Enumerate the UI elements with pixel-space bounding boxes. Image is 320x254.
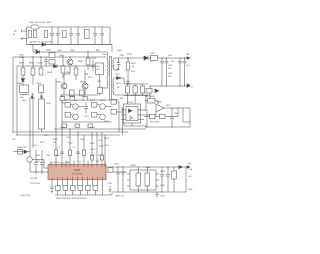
resistor R656 — [160, 114, 166, 119]
svg-text:D656: D656 — [157, 102, 162, 104]
svg-text:C611: C611 — [91, 58, 97, 60]
wire channel G — [101, 132, 103, 165]
junction dots row — [127, 57, 136, 96]
svg-text:R521: R521 — [56, 155, 61, 157]
svg-text:C542: C542 — [80, 139, 85, 141]
svg-text:R531: R531 — [90, 143, 95, 145]
wire secondary2 bottom — [114, 86, 150, 99]
wire secondary lead — [114, 57, 146, 59]
wire channel A — [29, 99, 31, 152]
wire left rail B — [16, 66, 18, 135]
diode D601 — [36, 50, 40, 53]
resistor R516 — [86, 186, 91, 191]
svg-text:RY601: RY601 — [29, 98, 35, 100]
resistor R603 — [63, 31, 66, 38]
capacitor C608 — [100, 27, 104, 45]
resistor R627b — [70, 97, 75, 100]
resistor R638 — [97, 88, 102, 94]
svg-text:1.5A: 1.5A — [188, 168, 193, 171]
IC extra top pin stubs — [51, 161, 105, 165]
svg-text:Q602: Q602 — [56, 82, 62, 84]
svg-text:C684: C684 — [160, 185, 166, 187]
pc internal marks — [129, 109, 133, 113]
capacitor C543 — [60, 152, 64, 154]
svg-text:Q601: Q601 — [59, 55, 65, 57]
svg-text:L60: L60 — [20, 97, 23, 99]
AC lead L — [22, 30, 27, 32]
svg-text:C651: C651 — [168, 65, 173, 67]
wire left edge — [26, 27, 28, 45]
svg-text:R531: R531 — [98, 155, 103, 157]
resistor R654 — [148, 99, 156, 104]
fuse F601 — [31, 25, 39, 29]
resistor R629a — [62, 124, 67, 127]
svg-text:R542: R542 — [68, 143, 73, 145]
ground sym2 — [155, 192, 159, 198]
wires drive — [70, 102, 122, 135]
capacitor C607 — [93, 27, 97, 45]
capacitor C544 — [76, 152, 80, 154]
capacitor C611 — [91, 60, 95, 71]
relay RY601 — [20, 85, 29, 93]
wire channel C — [55, 78, 57, 165]
resistor R604 — [22, 57, 24, 68]
resistor R681 — [173, 167, 175, 192]
svg-text:G: G — [191, 87, 193, 89]
wire channel H — [104, 135, 106, 165]
capacitor C606 — [76, 27, 80, 45]
svg-text:C68: C68 — [108, 183, 113, 185]
wire top rail — [27, 26, 111, 28]
resistor R626 — [111, 110, 116, 115]
pc pins left — [121, 110, 126, 120]
diode D652 — [155, 89, 159, 93]
svg-text:470: 470 — [171, 61, 174, 63]
wire out — [164, 107, 190, 109]
resistor R624 — [92, 113, 97, 118]
svg-text:R631: R631 — [131, 63, 136, 65]
transistor Q613 — [100, 104, 106, 110]
resistor R601a — [28, 31, 31, 38]
svg-text:T601: T601 — [102, 54, 108, 56]
wire right edge — [110, 27, 112, 52]
resistor R515 — [78, 186, 83, 191]
resistor R606 — [40, 57, 42, 68]
resistor R608 — [75, 65, 77, 80]
resistor R620 tall — [39, 99, 45, 129]
svg-text:C531: C531 — [98, 140, 103, 142]
svg-text:L651: L651 — [150, 53, 156, 55]
svg-text:Q603: Q603 — [80, 82, 86, 84]
svg-text:D65: D65 — [120, 55, 125, 57]
svg-text:C533: C533 — [90, 149, 95, 151]
junction dots rm — [145, 107, 178, 127]
IC501 hybrid regulator — [48, 165, 106, 180]
resistor R610 — [70, 90, 75, 96]
svg-text:R541: R541 — [53, 139, 58, 141]
photocoupler PC601 outer — [124, 104, 141, 123]
svg-text:R655 R656: R655 R656 — [150, 122, 160, 124]
svg-text:C515 R515: C515 R515 — [30, 183, 41, 185]
svg-text:4.7: 4.7 — [57, 147, 60, 149]
svg-text:D604: D604 — [34, 50, 39, 52]
svg-text:R605: R605 — [78, 61, 84, 63]
capacitor C621 — [84, 102, 88, 113]
svg-text:C609: C609 — [19, 57, 25, 59]
wire primary bottom — [100, 75, 107, 96]
svg-text:1.2: 1.2 — [150, 61, 153, 63]
resistor R621 — [65, 103, 70, 108]
svg-text:C681: C681 — [114, 164, 120, 166]
resistor R633 — [126, 86, 130, 93]
resistor R637 — [49, 60, 55, 65]
arrow gnd rail — [187, 84, 190, 86]
svg-text:0.01: 0.01 — [78, 162, 82, 164]
svg-text:C541: C541 — [66, 137, 71, 139]
resistor R631 — [127, 58, 129, 84]
svg-text:C612: C612 — [115, 74, 120, 76]
wire channel E — [91, 132, 93, 165]
svg-text:AC: AC — [14, 30, 17, 33]
output arrow top — [187, 166, 190, 168]
wire feed — [62, 95, 65, 103]
resistor R543 — [82, 150, 85, 156]
wire left rail A — [12, 57, 14, 132]
svg-text:C65: C65 — [168, 55, 173, 57]
svg-text:T60: T60 — [116, 69, 120, 71]
svg-text:D605: D605 — [57, 50, 62, 52]
svg-text:R601: R601 — [19, 63, 25, 65]
svg-text:R61: R61 — [88, 77, 93, 79]
wire secondary2 leads — [114, 69, 119, 71]
ground C623 — [41, 172, 44, 174]
capacitor C653 — [178, 58, 182, 86]
svg-text:470: 470 — [168, 68, 171, 70]
svg-text:R533: R533 — [104, 138, 109, 140]
diode D621 — [24, 150, 28, 154]
svg-text:C535: C535 — [104, 145, 109, 147]
junction dots ch — [55, 128, 78, 135]
capacitor C604 — [56, 27, 60, 45]
svg-text:10k: 10k — [53, 142, 56, 144]
IC pin ticks inside — [51, 165, 105, 180]
wire main bus — [13, 56, 106, 58]
diode D603 — [54, 64, 58, 67]
svg-text:+9V: +9V — [187, 164, 191, 166]
svg-text:IN: IN — [13, 34, 16, 36]
capacitor C603 — [50, 27, 54, 45]
capacitor C622 — [34, 150, 38, 172]
capacitor C651 — [160, 58, 164, 86]
wire channel B — [32, 93, 34, 148]
svg-text:D602: D602 — [17, 83, 23, 85]
vertical x147 — [146, 110, 148, 127]
svg-text:C610: C610 — [70, 50, 75, 52]
resistor R625 — [111, 100, 116, 105]
wire hbus1 — [13, 131, 128, 133]
svg-text:R628 D621: R628 D621 — [17, 147, 28, 149]
transformer secondary 1 — [112, 58, 115, 70]
output arrow — [187, 57, 190, 60]
capacitor C654 — [183, 58, 187, 86]
wire — [32, 75, 34, 85]
transformer core — [110, 56, 112, 100]
svg-text:S2: S2 — [117, 87, 120, 89]
resistor R513 — [63, 186, 68, 191]
svg-text:D608: D608 — [117, 50, 123, 52]
resistor R628 — [18, 150, 23, 155]
svg-text:C516 R518: C516 R518 — [20, 195, 31, 197]
ground sym — [108, 186, 112, 193]
transistor Q611 — [73, 104, 79, 110]
wire channel F — [96, 132, 98, 165]
svg-text:R519: R519 — [40, 142, 45, 144]
svg-text:C51 R51: C51 R51 — [30, 178, 37, 180]
svg-text:C616: C616 — [46, 103, 52, 105]
inductor L651 — [151, 56, 158, 61]
wire secondary gnd rail — [150, 85, 187, 87]
diode D602 — [21, 79, 25, 82]
svg-text:L603: L603 — [22, 100, 27, 102]
svg-text:STR-S6709: STR-S6709 — [72, 174, 83, 176]
ic681 internal marks — [138, 167, 147, 192]
resistor R517 — [93, 186, 98, 191]
wire mid rail — [144, 116, 178, 118]
capacitor C684 — [166, 167, 170, 192]
resistor R607 — [62, 57, 64, 78]
capacitor C655 — [170, 108, 174, 127]
wire row drops — [128, 84, 146, 110]
ic681 internal element B — [145, 173, 150, 186]
diode D651 — [144, 56, 148, 60]
svg-text:R52: R52 — [44, 135, 47, 137]
svg-text:+B: +B — [186, 53, 189, 56]
inductor L602 — [85, 30, 90, 39]
wire box leads — [145, 101, 158, 104]
wire right edge — [185, 167, 187, 192]
transistor Q615 — [27, 157, 33, 163]
wire channel E3 — [83, 135, 85, 165]
transformer primary winding — [106, 52, 108, 60]
capacitor C682 — [121, 167, 125, 192]
svg-text:C683: C683 — [160, 171, 166, 173]
svg-text:C61: C61 — [97, 81, 102, 83]
capacitor C610 — [44, 57, 48, 66]
capacitor C632 — [126, 80, 130, 83]
wire drive bottom rail — [62, 121, 112, 123]
svg-text:C60 R60 C60 L60 C60 R60: C60 R60 C60 L60 C60 R60 — [29, 42, 52, 44]
svg-text:C684: C684 — [160, 196, 166, 198]
resistor R655 — [150, 114, 156, 119]
svg-text:C511: C511 — [46, 155, 50, 157]
svg-text:L681: L681 — [146, 167, 151, 169]
chassis gnd x — [40, 96, 43, 99]
wire bus2 — [17, 65, 96, 67]
resistor R627c — [83, 97, 88, 100]
resistor R512 — [56, 186, 61, 191]
svg-text:R512 R513 R514 R515 R516 R517: R512 R513 R514 R515 R516 R517 — [56, 198, 88, 200]
wire right edge down — [189, 108, 191, 127]
transistor Q602 — [61, 83, 67, 89]
resistor R623 — [92, 103, 97, 108]
resistor R635 — [141, 86, 145, 93]
resistor R541 — [54, 150, 57, 156]
wire rectified rail — [33, 45, 106, 53]
svg-text:D651: D651 — [127, 54, 133, 56]
svg-text:C610: C610 — [37, 63, 43, 65]
svg-text:220: 220 — [168, 76, 171, 78]
svg-text:Z601: Z601 — [36, 83, 42, 85]
capacitor C512 — [50, 187, 54, 192]
capacitor C683 — [160, 167, 164, 192]
svg-text:C519: C519 — [33, 145, 38, 147]
svg-text:C53: C53 — [36, 161, 39, 163]
svg-text:C65: C65 — [186, 65, 189, 67]
transistor Q612 — [73, 114, 79, 120]
svg-text:C601 L601 F601 C602: C601 L601 F601 C602 — [29, 22, 52, 24]
svg-text:R511: R511 — [36, 155, 40, 157]
resistor R629b — [75, 124, 80, 127]
svg-text:C652: C652 — [168, 73, 173, 75]
svg-text:R54: R54 — [96, 161, 99, 163]
wire from pink — [106, 171, 127, 173]
resistor R629c — [88, 124, 93, 127]
transistor Q614 — [100, 114, 106, 120]
arrow gnd rail2 — [187, 85, 190, 87]
svg-text:R651 D652: R651 D652 — [145, 96, 155, 98]
svg-text:R602: R602 — [29, 63, 35, 65]
svg-text:C63: C63 — [131, 71, 136, 73]
capacitor C605 — [69, 27, 73, 45]
capacitor C652 — [165, 58, 169, 86]
svg-text:C621: C621 — [84, 116, 90, 118]
IC bottom pin stubs — [52, 180, 103, 196]
resistor R605 — [32, 57, 34, 68]
wire collector net — [64, 65, 88, 83]
resistor R602 — [44, 31, 47, 38]
wire channel D — [61, 95, 63, 165]
wire bottom link — [145, 108, 190, 127]
resistor R627a — [60, 97, 65, 100]
svg-text:C619: C619 — [90, 127, 96, 129]
wire hbus2 — [17, 134, 120, 136]
wire output — [148, 57, 187, 59]
svg-text:C521: C521 — [90, 155, 95, 157]
svg-text:R63: R63 — [120, 98, 123, 100]
varistor Z601 — [39, 85, 44, 93]
wires cluster — [13, 152, 48, 172]
ic681 internal element A — [136, 173, 141, 186]
ground C622 — [35, 172, 38, 174]
svg-text:R532: R532 — [99, 146, 104, 148]
wire top rail — [106, 166, 187, 168]
svg-text:C682 470: C682 470 — [115, 196, 125, 198]
AC lead N — [21, 37, 27, 40]
svg-text:IC501: IC501 — [74, 169, 81, 172]
resistor R682 — [108, 168, 113, 172]
resistor R542 — [68, 150, 71, 156]
capacitor C623 — [40, 150, 44, 172]
wire bottom rail — [55, 193, 112, 195]
wire row rail top — [124, 83, 148, 85]
transistor Q601 — [69, 57, 71, 59]
svg-text:R60: R60 — [96, 50, 99, 52]
wire drop to pc — [54, 123, 147, 129]
svg-text:C52: C52 — [12, 139, 15, 141]
capacitor C681 — [116, 167, 120, 192]
resistor R636 — [49, 53, 55, 58]
junction dots secondary — [149, 57, 185, 86]
svg-text:1.5k: 1.5k — [131, 66, 135, 68]
transformer secondary 2 — [112, 78, 115, 95]
AC terminals — [21, 30, 23, 32]
junction dots out — [117, 166, 174, 192]
svg-text:C655: C655 — [174, 113, 179, 115]
svg-text:R657: R657 — [166, 105, 171, 107]
shunt regulator D656 — [156, 104, 164, 112]
coil L603 — [20, 94, 29, 96]
diode D682 — [177, 166, 182, 169]
ground C512 — [51, 192, 53, 194]
capacitor C612 — [117, 58, 121, 70]
resistor R634 — [133, 86, 137, 93]
wire channel E1 — [69, 129, 71, 165]
ic681 pins left — [127, 174, 130, 186]
wire in — [150, 112, 156, 115]
pc pins right — [138, 110, 150, 120]
resistor R651 — [146, 89, 152, 94]
capacitor C531 — [91, 155, 94, 160]
diode D653 — [114, 76, 124, 84]
transistor Q603 — [82, 83, 88, 89]
arrow down — [31, 93, 33, 99]
svg-text:D603: D603 — [47, 72, 53, 74]
svg-text:2.2: 2.2 — [73, 147, 76, 149]
ic681 pins right — [156, 174, 159, 186]
svg-text:D653: D653 — [116, 83, 121, 85]
snubber box — [96, 63, 104, 75]
svg-text:+5V: +5V — [188, 176, 192, 178]
wire row rail bottom — [124, 95, 148, 97]
svg-text:D605: D605 — [46, 50, 52, 52]
resistor R601b — [33, 31, 36, 38]
resistor R514 — [71, 186, 76, 191]
svg-text:GND: GND — [188, 189, 193, 191]
photocoupler PC601 inner — [126, 107, 138, 121]
junction dots — [12, 51, 110, 135]
wire bottom rail — [112, 191, 186, 193]
wire bottom rail — [27, 44, 113, 46]
svg-text:PC601: PC601 — [127, 102, 134, 104]
IC681 sub regulator — [130, 170, 156, 190]
resistor R609 — [87, 52, 89, 70]
capacitor C532 — [101, 155, 104, 160]
wire drive top rail — [60, 99, 118, 101]
diode D602b — [42, 43, 46, 46]
resistor R611 — [80, 90, 85, 96]
resistor R622 — [65, 113, 70, 118]
wire bottom row drops — [58, 191, 96, 196]
wire channel E2 — [77, 132, 79, 165]
wire emitter rail — [60, 89, 98, 95]
svg-text:IC681: IC681 — [130, 165, 137, 167]
svg-text:1 2 3 4 5 6 7 8 9 10 11 12: 1 2 3 4 5 6 7 8 9 10 11 12 — [49, 163, 69, 165]
